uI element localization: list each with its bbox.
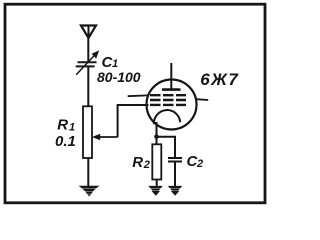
- svg-text:R: R: [132, 154, 143, 171]
- wire R1 to ground: [87, 158, 89, 186]
- svg-text:2: 2: [143, 159, 150, 171]
- grid stub left: [128, 94, 148, 97]
- wire R2 to ground: [156, 180, 158, 187]
- wire wiper to grid: [118, 105, 149, 137]
- wire node to R2: [156, 137, 158, 145]
- frame border: [5, 4, 265, 203]
- ground (R2): [148, 186, 163, 196]
- grid g2 row: [150, 99, 186, 101]
- svg-text:2: 2: [196, 158, 203, 170]
- grid g1 row: [150, 94, 186, 96]
- wire C1 to R1: [87, 66, 89, 107]
- resistor R1 (potentiometer): [83, 106, 92, 158]
- wire C2 to ground: [174, 162, 176, 187]
- anode of U1: [162, 63, 181, 90]
- capacitor C2: [168, 158, 182, 162]
- wire antenna to C1: [87, 38, 89, 62]
- svg-text:R: R: [57, 117, 68, 134]
- node K junction dot: [154, 134, 159, 139]
- cathode arc: [154, 110, 180, 124]
- ground (C2): [168, 186, 183, 196]
- capacitor C1 (variable): [76, 50, 100, 74]
- grid g3 row: [150, 104, 186, 106]
- svg-text:6Ж7: 6Ж7: [200, 70, 239, 89]
- svg-text:0.1: 0.1: [55, 133, 76, 150]
- wiper arrow of R1: [92, 134, 118, 140]
- antenna W1: [81, 26, 96, 39]
- resistor R2: [152, 144, 161, 179]
- cathode lead: [156, 122, 158, 137]
- grid stub right: [196, 98, 208, 101]
- ground (R1): [79, 186, 100, 197]
- tube U1 6Zh7 envelope: [147, 80, 197, 130]
- svg-text:80-100: 80-100: [97, 69, 141, 85]
- wire node to C2: [157, 137, 176, 158]
- svg-text:1: 1: [69, 121, 75, 133]
